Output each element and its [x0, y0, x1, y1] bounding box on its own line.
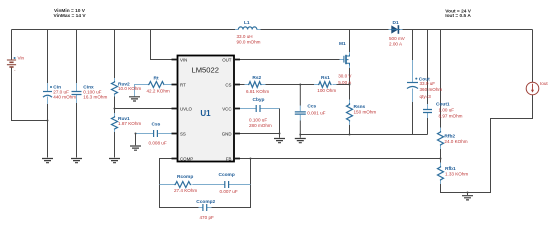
- svg-text:30.0 V: 30.0 V: [338, 73, 352, 78]
- svg-text:M1: M1: [339, 41, 346, 47]
- svg-text:1.33 KOhm: 1.33 KOhm: [445, 171, 468, 176]
- svg-text:Ccs: Ccs: [307, 104, 316, 110]
- svg-text:LM5022: LM5022: [191, 66, 218, 75]
- svg-text:Rs1: Rs1: [321, 75, 330, 81]
- svg-text:0.001 uF: 0.001 uF: [307, 110, 325, 115]
- svg-text:Ccomp2: Ccomp2: [196, 199, 215, 205]
- svg-text:RT: RT: [180, 83, 186, 88]
- svg-text:2.00 A: 2.00 A: [389, 41, 403, 46]
- svg-text:COMP: COMP: [180, 157, 193, 162]
- svg-text:1.87 KOhm: 1.87 KOhm: [118, 121, 141, 126]
- svg-text:150 mOhm: 150 mOhm: [354, 109, 377, 114]
- svg-text:VIN: VIN: [180, 58, 187, 63]
- svg-text:Rs2: Rs2: [252, 75, 261, 81]
- svg-text:33.0 uF: 33.0 uF: [420, 81, 436, 86]
- svg-text:VinMax = 14 V: VinMax = 14 V: [54, 13, 87, 19]
- svg-text:Iout: Iout: [540, 81, 548, 86]
- svg-text:0.007 uF: 0.007 uF: [220, 189, 238, 194]
- svg-text:6.81 KOhm: 6.81 KOhm: [246, 89, 269, 94]
- svg-text:Rt: Rt: [154, 75, 159, 81]
- svg-text:CS: CS: [225, 83, 231, 88]
- svg-text:5.00 A: 5.00 A: [338, 80, 352, 85]
- svg-text:360 mOhm: 360 mOhm: [420, 87, 443, 92]
- svg-text:Cbyp: Cbyp: [253, 97, 265, 103]
- svg-text:16.3 mOhm: 16.3 mOhm: [83, 95, 107, 100]
- svg-text:0.100 uF: 0.100 uF: [249, 117, 267, 122]
- svg-text:Rcomp: Rcomp: [177, 174, 193, 180]
- svg-text:U1: U1: [200, 109, 211, 118]
- svg-text:42.2 KOhm: 42.2 KOhm: [147, 88, 170, 93]
- svg-text:33.0 uH: 33.0 uH: [237, 34, 253, 39]
- svg-text:SS: SS: [180, 132, 186, 137]
- svg-text:470 pF: 470 pF: [200, 215, 214, 220]
- svg-text:1.00 uF: 1.00 uF: [439, 107, 455, 112]
- svg-text:280 mOhm: 280 mOhm: [249, 123, 272, 128]
- svg-text:500 mV: 500 mV: [389, 36, 406, 41]
- svg-text:D1: D1: [393, 20, 399, 26]
- svg-text:Iout = 0.5 A: Iout = 0.5 A: [445, 13, 471, 19]
- svg-text:VCC: VCC: [222, 107, 231, 112]
- svg-text:8.97 mOhm: 8.97 mOhm: [439, 114, 463, 119]
- svg-text:440 mOhm: 440 mOhm: [53, 95, 76, 100]
- svg-text:0.008 uF: 0.008 uF: [149, 141, 167, 146]
- svg-text:L1: L1: [244, 20, 250, 26]
- svg-text:24.0 KOhm: 24.0 KOhm: [444, 139, 467, 144]
- svg-text:qty=3: qty=3: [420, 94, 432, 99]
- svg-text:27.4 KOhm: 27.4 KOhm: [174, 188, 197, 193]
- svg-text:FB: FB: [226, 157, 232, 162]
- svg-text:100 Ohm: 100 Ohm: [317, 88, 336, 93]
- svg-text:UVLO: UVLO: [180, 107, 193, 112]
- svg-text:Css: Css: [152, 122, 161, 128]
- svg-text:90.0 mOhm: 90.0 mOhm: [237, 39, 261, 44]
- svg-text:OUT: OUT: [222, 58, 232, 63]
- svg-text:GND: GND: [222, 132, 232, 137]
- svg-text:Ccomp: Ccomp: [219, 172, 235, 178]
- svg-text:Vin: Vin: [18, 56, 25, 61]
- svg-text:10.0 KOhm: 10.0 KOhm: [118, 86, 141, 91]
